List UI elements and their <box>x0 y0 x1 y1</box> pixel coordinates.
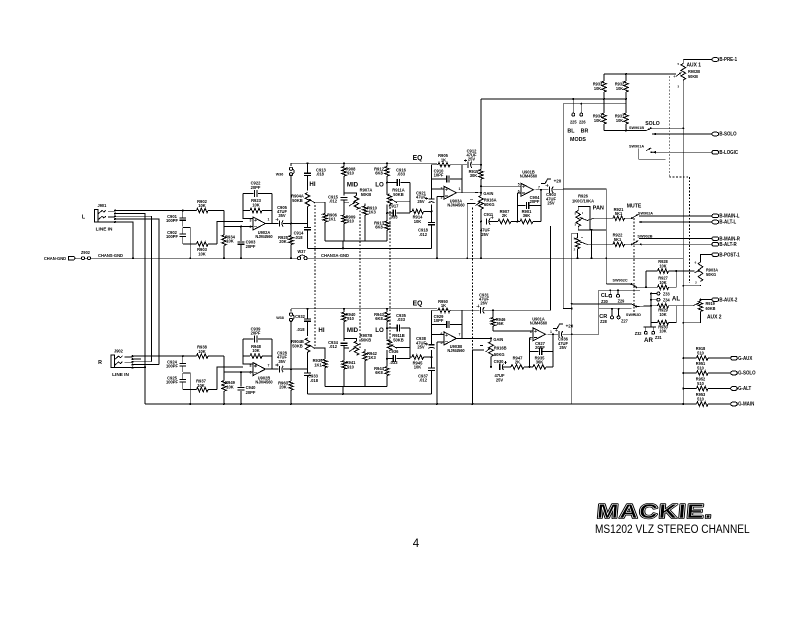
potentiometer R926A pan upper <box>577 207 579 211</box>
resistor R945 10K <box>410 356 412 358</box>
wire chan-gnd rail left <box>91 257 299 259</box>
svg-text:35V: 35V <box>278 359 285 364</box>
jumper W36 <box>290 163 292 166</box>
resistor R943 6K8 <box>386 309 388 312</box>
resistor R933 10K <box>603 74 605 81</box>
wire feedback right <box>456 165 462 193</box>
svg-text:25V: 25V <box>547 200 554 205</box>
svg-text:B-PRE-1: B-PRE-1 <box>719 57 737 64</box>
capacitor C905 47UF 35V <box>265 223 278 225</box>
svg-text:225: 225 <box>570 120 577 125</box>
output tag B-AUX-2 <box>712 298 719 302</box>
capacitor C918 .012 <box>431 211 433 213</box>
potentiometer R926B pan lower <box>572 233 578 238</box>
svg-text:36K: 36K <box>523 213 531 218</box>
wire R tip to filter <box>133 355 183 357</box>
svg-text:10K: 10K <box>414 219 422 224</box>
svg-text:B-ALT-R: B-ALT-R <box>719 241 737 248</box>
svg-text:B-SOLO: B-SOLO <box>719 131 736 138</box>
svg-text:50KB: 50KB <box>393 192 403 197</box>
resistor R921 5K1 <box>613 216 625 221</box>
wire pan upper wiper <box>580 218 588 221</box>
svg-text:10K: 10K <box>659 280 666 285</box>
capacitor C925 100PF <box>179 380 186 382</box>
svg-text:B-AUX-2: B-AUX-2 <box>719 297 737 304</box>
svg-text:10K: 10K <box>226 239 234 244</box>
svg-text:50KB: 50KB <box>393 337 403 342</box>
resistor R909 910 <box>342 215 347 224</box>
wire B-PRE-1 row <box>683 59 712 61</box>
resistor R951 510 <box>683 372 696 374</box>
svg-text:2K: 2K <box>515 359 520 364</box>
svg-text:6: 6 <box>695 260 697 264</box>
wire pan box top <box>563 188 606 190</box>
wire feedback to output <box>552 334 554 367</box>
jumper W38 <box>290 309 292 312</box>
svg-text:.012: .012 <box>419 377 428 382</box>
svg-text:.012: .012 <box>419 232 428 237</box>
potentiometer R911A 50KB LO <box>387 194 392 205</box>
resistor R953 510 <box>683 403 696 405</box>
wire EQ inner bottom bus <box>325 386 387 388</box>
output tag B-MAIN-L <box>712 214 719 218</box>
wire aux pickoff up <box>480 99 482 165</box>
potentiometer R904A 50KB HI <box>305 193 310 207</box>
svg-text:SW902C: SW902C <box>612 277 627 282</box>
svg-text:SW901A: SW901A <box>629 143 644 148</box>
svg-text:10K: 10K <box>198 349 206 354</box>
potentiometer R903A 50KG post <box>698 262 703 282</box>
resistor R949 10K <box>223 356 225 372</box>
svg-text:MACKIE.: MACKIE. <box>596 500 714 523</box>
wire to opamp - <box>224 226 253 228</box>
svg-text:Z30: Z30 <box>601 299 608 304</box>
wire pan box right <box>605 189 607 230</box>
resistor R934 10K <box>223 211 225 227</box>
svg-text:50KB: 50KB <box>292 343 302 348</box>
svg-text:5: 5 <box>441 341 443 345</box>
wire gain pot bottom <box>480 209 482 221</box>
resistor R918 510 <box>683 357 696 359</box>
capacitor C937 .012 <box>431 356 433 358</box>
potentiometer R916A 60KG gain <box>480 193 482 196</box>
resistor R922 5K1 <box>613 242 625 247</box>
wire to opamp - <box>224 371 253 373</box>
wire upper pot gnd drop <box>591 230 593 258</box>
wire EQ top rail <box>291 162 437 164</box>
resistor R941 910 <box>342 361 347 370</box>
svg-text:1K: 1K <box>441 157 446 162</box>
resistor R903 10K <box>183 243 197 245</box>
svg-text:AL: AL <box>672 295 680 302</box>
wire opamp inputs <box>432 334 445 336</box>
jumper Z902 <box>82 257 85 260</box>
svg-text:1: 1 <box>550 330 552 334</box>
wire B-LOGIC row <box>652 151 713 153</box>
wire B-MAIN-L row <box>639 215 712 217</box>
svg-text:.018: .018 <box>297 327 306 332</box>
svg-text:.033: .033 <box>397 317 406 322</box>
svg-text:SW902D: SW902D <box>626 312 641 317</box>
svg-text:910: 910 <box>347 170 354 175</box>
svg-text:910: 910 <box>347 364 354 369</box>
wire to opamp + <box>217 222 243 245</box>
svg-text:3: 3 <box>574 223 576 227</box>
svg-text:LINE IN: LINE IN <box>96 226 113 232</box>
svg-text:W36: W36 <box>276 172 284 176</box>
svg-text:C932: C932 <box>295 314 305 319</box>
wire EQ out to gain pot <box>456 337 491 339</box>
svg-text:AUX 1: AUX 1 <box>687 62 702 68</box>
svg-text:NJM4560: NJM4560 <box>530 320 548 325</box>
capacitor C928 47UF 35V <box>265 368 278 370</box>
svg-text:SW901B: SW901B <box>629 125 644 130</box>
wire to U901A pin3 <box>493 330 533 332</box>
svg-text:SW902A: SW902A <box>638 210 653 215</box>
svg-text:36K: 36K <box>496 321 504 326</box>
wire MID wiper <box>344 347 349 349</box>
resistor R950 1K feedback <box>432 309 439 311</box>
wire R post pickoff row <box>572 303 632 305</box>
output tag B-PRE-1 <box>712 58 719 62</box>
svg-text:226: 226 <box>579 120 586 125</box>
svg-text:Z902: Z902 <box>81 250 91 255</box>
svg-text:10K: 10K <box>198 203 206 208</box>
wire opamp gnd leg <box>436 342 438 404</box>
wire pin5 feed <box>481 185 521 187</box>
wire to R919 wiper <box>676 305 692 307</box>
svg-text:G-MAIN: G-MAIN <box>738 401 754 408</box>
svg-text:Z28: Z28 <box>600 319 607 324</box>
resistor R914 10K <box>410 211 412 213</box>
svg-text:NJM4560: NJM4560 <box>255 379 273 384</box>
wire pickoff row to corridor <box>492 309 494 311</box>
svg-text:Z33: Z33 <box>663 291 670 296</box>
svg-text:J902: J902 <box>114 349 124 354</box>
svg-text:2: 2 <box>695 281 697 285</box>
MACKIE logo <box>596 500 714 523</box>
potentiometer R919 60KB aux2 <box>698 301 703 312</box>
svg-text:BL: BL <box>567 128 575 134</box>
resistor R930 10K <box>651 322 658 324</box>
wire EQ outer bottom bus <box>308 247 432 249</box>
svg-text:Z32: Z32 <box>635 331 642 336</box>
svg-text:35V: 35V <box>278 213 285 218</box>
resistor R952 510 <box>683 388 696 390</box>
svg-text:25V: 25V <box>417 344 424 349</box>
wire pan lower bottom to gnd <box>577 249 579 258</box>
svg-text:50KG: 50KG <box>706 272 716 277</box>
svg-text:B-ALT-L: B-ALT-L <box>719 219 736 226</box>
op-amp U901B NJM4560 <box>521 183 533 196</box>
wire SW902C feed <box>605 230 607 284</box>
wire Z33 Z34 column <box>650 294 652 323</box>
wire LO caps join <box>409 328 411 359</box>
wire pan upper loop <box>578 207 590 230</box>
svg-text:+20: +20 <box>554 178 562 183</box>
svg-text:.033: .033 <box>390 360 399 365</box>
capacitor C917 .033 <box>387 212 392 214</box>
wire pan lower wiper <box>579 242 587 245</box>
wire pan feed vertical <box>571 233 573 404</box>
resistor R948 10K <box>243 355 250 357</box>
resistor R934 10K <box>602 113 607 124</box>
resistor R944 6K8 <box>386 350 388 367</box>
wire EQ out to gain pot <box>456 192 481 194</box>
svg-text:3: 3 <box>530 330 532 334</box>
svg-text:7: 7 <box>459 332 461 336</box>
wire LO caps join <box>409 183 411 214</box>
svg-text:100PF: 100PF <box>166 218 178 223</box>
capacitor C921 47UF 25V ecap <box>431 205 433 212</box>
wire R jack rows <box>133 358 142 360</box>
svg-text:100PF: 100PF <box>166 363 178 368</box>
resistor R912 6K8 <box>386 163 388 166</box>
resistor R937 10K <box>183 389 197 391</box>
svg-text:10K: 10K <box>616 118 623 123</box>
svg-text:2K: 2K <box>502 213 507 218</box>
svg-text:10K: 10K <box>594 86 601 91</box>
resistor R940 910 <box>343 309 345 312</box>
output tag G-SOLO <box>731 371 738 375</box>
wire opamp inputs <box>432 188 445 190</box>
power +20 <box>553 324 563 328</box>
svg-text:510: 510 <box>697 381 704 386</box>
svg-text:25V: 25V <box>496 377 503 382</box>
svg-text:10PF: 10PF <box>434 318 444 323</box>
wire BR feed vertical <box>562 104 564 309</box>
dashed gang HI <box>314 205 316 347</box>
wire chan-gnd rail right <box>307 257 684 259</box>
resistor R905 1K feedback <box>432 164 439 166</box>
jumper 226 BR <box>580 104 582 113</box>
wire feedback <box>243 339 253 364</box>
svg-text:20PF: 20PF <box>246 390 256 395</box>
capacitor C938 47UF 25V ecap <box>431 350 433 357</box>
svg-text:W37: W37 <box>297 249 306 254</box>
svg-text:100PF: 100PF <box>166 379 178 384</box>
svg-text:30K: 30K <box>470 173 478 178</box>
svg-text:.012: .012 <box>329 198 338 203</box>
wire R919 bottom to bus <box>683 312 700 323</box>
svg-text:10PF: 10PF <box>434 172 444 177</box>
svg-text:26V: 26V <box>480 301 487 306</box>
capacitor C915 .012 <box>341 198 348 200</box>
svg-text:5: 5 <box>518 183 520 187</box>
svg-text:C911: C911 <box>484 212 494 217</box>
output tag B-ALT-R <box>712 243 719 247</box>
svg-text:20PF: 20PF <box>530 199 540 204</box>
svg-text:25V: 25V <box>481 232 488 237</box>
capacitor C916 .033 <box>387 182 396 184</box>
svg-text:2: 2 <box>530 337 532 341</box>
wire bottom rail <box>145 403 693 405</box>
svg-text:G-ALT: G-ALT <box>738 386 752 393</box>
potentiometer R911B 50KB LO <box>387 340 392 351</box>
capacitor C903 20PF <box>240 226 242 228</box>
svg-text:50KG: 50KG <box>494 352 505 357</box>
wire gain wiper to gnd rail <box>467 204 475 259</box>
svg-text:510: 510 <box>697 351 704 356</box>
wire jack contacts <box>132 355 134 357</box>
svg-text:6K8: 6K8 <box>375 370 383 375</box>
capacitor C932 .018 <box>307 309 309 319</box>
capacitor C934 .012 <box>341 343 348 345</box>
resistor R913 6K8 <box>386 205 388 222</box>
svg-text:10K: 10K <box>198 251 206 256</box>
svg-text:10K: 10K <box>594 118 601 123</box>
svg-text:5: 5 <box>574 236 576 240</box>
svg-text:910: 910 <box>347 316 354 321</box>
capacitor C940 20PF <box>240 371 242 373</box>
svg-text:5: 5 <box>677 62 679 66</box>
resistor R901 36K <box>518 221 521 223</box>
wire R903A bottom to bus <box>683 284 700 287</box>
wire L normal drops <box>115 214 145 405</box>
svg-text:10K: 10K <box>252 202 260 207</box>
op-amp U901A NJM4560 <box>533 328 545 341</box>
wire buffer out to EQ <box>291 223 308 225</box>
svg-text:50KB: 50KB <box>361 192 371 197</box>
svg-text:LO: LO <box>375 327 384 334</box>
capacitor C936 .033 <box>387 358 392 360</box>
svg-text:4: 4 <box>413 538 420 550</box>
resistor R931 10K <box>624 113 629 124</box>
capacitor C911 47UF 25V <box>485 218 487 224</box>
capacitor C913 .018 <box>307 163 309 173</box>
svg-text:G-AUX: G-AUX <box>738 355 753 362</box>
svg-text:3: 3 <box>250 218 252 222</box>
wire divider tops to aux pot wiper <box>604 73 676 75</box>
resistor R938 10K <box>183 355 197 357</box>
svg-text:CHAN-GND: CHAN-GND <box>44 256 66 261</box>
svg-text:2: 2 <box>574 248 576 252</box>
svg-text:.018: .018 <box>310 378 319 383</box>
svg-text:10K: 10K <box>659 312 666 317</box>
wire to R927 R928 node <box>635 286 637 288</box>
wire EQ top rail <box>291 308 437 310</box>
svg-text:4: 4 <box>673 74 675 78</box>
svg-text:B-POST-1: B-POST-1 <box>719 252 739 259</box>
svg-text:J901: J901 <box>98 203 108 208</box>
potentiometer R907B 50KB MID <box>354 341 359 355</box>
svg-text:.033: .033 <box>397 171 406 176</box>
svg-text:10K: 10K <box>616 86 623 91</box>
capacitor C929 10PF <box>431 310 433 334</box>
op-amp U903A NJM4560 <box>444 186 456 199</box>
svg-text:1K0C/10KA: 1K0C/10KA <box>572 198 594 203</box>
resistor R947 2K <box>503 366 511 368</box>
capacitor C912 47UF 25V aux pickoff <box>462 164 467 166</box>
svg-text:.012: .012 <box>329 344 338 349</box>
wire R post out <box>572 333 599 335</box>
svg-text:25V: 25V <box>417 199 424 204</box>
wire L tip to filter <box>115 210 183 212</box>
dashed gang solo switches <box>668 76 670 177</box>
svg-text:10K: 10K <box>659 263 666 268</box>
capacitor C939 20PF <box>243 338 254 340</box>
wire SW901A common <box>639 148 666 159</box>
svg-text:.018: .018 <box>295 235 304 240</box>
wire B-MAIN-R row <box>639 238 712 240</box>
svg-text:10K: 10K <box>197 383 205 388</box>
svg-text:BR: BR <box>581 128 589 134</box>
wire gain wiper <box>472 349 484 351</box>
svg-text:R: R <box>98 360 102 366</box>
wire R927 R928 loop <box>645 271 647 287</box>
capacitor C902 100PF <box>179 234 186 236</box>
capacitor C924 100PF <box>182 356 184 363</box>
dashed gang mute switches <box>633 218 635 315</box>
wire feedback <box>243 194 253 219</box>
resistor R923 10K <box>243 210 250 212</box>
svg-text:.018: .018 <box>316 172 325 177</box>
svg-text:5K1: 5K1 <box>614 237 622 242</box>
capacitor C936 47UF 25V output <box>547 333 557 335</box>
svg-text:PAN: PAN <box>593 205 604 211</box>
svg-text:AUX 2: AUX 2 <box>707 314 722 320</box>
svg-text:6: 6 <box>441 332 443 336</box>
wire aux row B <box>563 103 626 105</box>
resistor R915 30K <box>480 165 482 170</box>
svg-text:25V: 25V <box>559 345 566 350</box>
resistor R902 10K <box>183 210 197 212</box>
wire cap mid to gnd <box>183 228 191 259</box>
svg-text:20K: 20K <box>279 384 287 389</box>
capacitor C910 10PF <box>431 165 433 189</box>
svg-text:50KB: 50KB <box>292 198 302 203</box>
wire pin6 <box>517 192 521 194</box>
svg-text:+20: +20 <box>566 323 574 328</box>
output tag G-ALT <box>731 387 738 391</box>
svg-text:Z34: Z34 <box>663 297 670 302</box>
svg-text:10K: 10K <box>659 329 666 334</box>
svg-text:EQ: EQ <box>413 155 423 162</box>
svg-text:6K8: 6K8 <box>375 316 383 321</box>
svg-text:1K3: 1K3 <box>368 355 376 360</box>
svg-text:B-LOGIC: B-LOGIC <box>719 149 738 156</box>
svg-text:1: 1 <box>459 187 461 191</box>
jumper W37 <box>298 257 301 260</box>
svg-text:G-SOLO: G-SOLO <box>738 370 755 377</box>
wire L sleeve to gnd <box>115 222 133 258</box>
svg-text:MS1202 VLZ STEREO CHANNEL: MS1202 VLZ STEREO CHANNEL <box>595 523 750 536</box>
wire EQ outer bottom bus <box>308 393 432 395</box>
svg-text:CHANSA-GND: CHANSA-GND <box>321 253 349 258</box>
wire to opamp + <box>217 367 243 390</box>
svg-text:Z27: Z27 <box>621 318 628 323</box>
svg-text:NJM4560: NJM4560 <box>520 173 538 178</box>
wire cap mid to gnd <box>183 373 191 404</box>
capacitor C901 100PF <box>182 211 184 218</box>
resistor R906 1K1 <box>314 202 326 213</box>
svg-text:100PF: 100PF <box>166 234 178 239</box>
svg-text:6: 6 <box>250 371 252 375</box>
svg-text:510: 510 <box>697 365 704 370</box>
output tag B-POST-1 <box>712 253 719 257</box>
svg-text:Z31: Z31 <box>655 335 662 340</box>
svg-text:5: 5 <box>574 211 576 215</box>
svg-text:C930: C930 <box>494 359 504 364</box>
output tag B-ALT-L <box>712 220 719 224</box>
wire solo bus stub <box>651 127 684 129</box>
resistor R928 10K <box>646 270 658 272</box>
wire jack contacts <box>114 210 116 212</box>
resistor R939 1K1 <box>314 348 326 359</box>
resistor R960 20K <box>290 368 292 370</box>
svg-text:25V: 25V <box>468 157 475 162</box>
dashed gang LO <box>389 204 391 344</box>
